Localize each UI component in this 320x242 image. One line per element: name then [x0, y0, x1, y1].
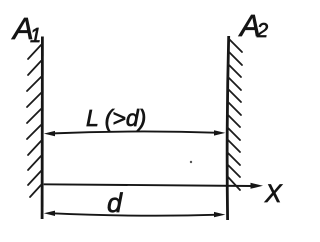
svg-text:2: 2	[256, 20, 268, 42]
svg-text:d: d	[107, 188, 123, 218]
hatching left wall	[27, 45, 41, 197]
hatching right wall	[227, 39, 242, 190]
svg-text:X: X	[264, 180, 283, 208]
svg-text:1: 1	[30, 25, 41, 47]
wall A2 (right plate)	[227, 36, 229, 220]
dimension line d (double arrow)	[50, 213, 219, 216]
stray dot	[190, 161, 192, 163]
x axis line	[44, 184, 251, 186]
wall A1 (left plate)	[41, 37, 44, 220]
dimension line L (double arrow)	[50, 131, 219, 133]
svg-text:L (>d): L (>d)	[86, 105, 146, 131]
